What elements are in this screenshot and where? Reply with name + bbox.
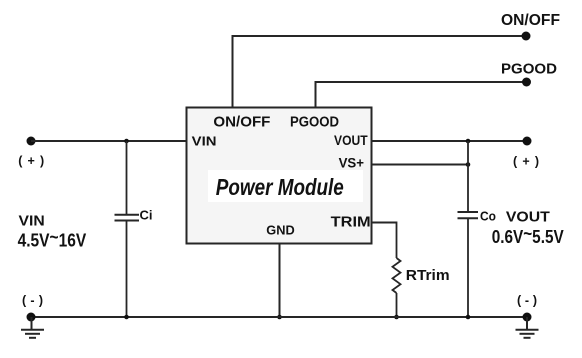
- wire PGOOD vertical from U1 top: [315, 82, 317, 108]
- svg-text:PGOOD: PGOOD: [501, 62, 557, 78]
- wire Co lower vertical: [467, 218, 469, 317]
- wire TRIM horizontal: [372, 222, 397, 224]
- svg-text:VOUT: VOUT: [334, 132, 368, 148]
- svg-text:(+): (+): [18, 154, 44, 168]
- svg-text:RTrim: RTrim: [406, 267, 450, 284]
- svg-text:(-): (-): [517, 294, 537, 308]
- wire Ci upper vertical: [126, 141, 128, 215]
- capacitor Ci: [115, 215, 140, 221]
- terminal node VIN (+): [27, 137, 36, 146]
- ground symbol right: [516, 317, 539, 338]
- svg-text:Co: Co: [480, 208, 496, 223]
- svg-text:0.6V~5.5V: 0.6V~5.5V: [492, 224, 564, 248]
- junction node Ci/rail: [124, 315, 129, 320]
- svg-text:VS+: VS+: [339, 155, 364, 171]
- wire PGOOD horizontal to terminal: [315, 81, 527, 83]
- wire RTrim lower vertical: [396, 293, 398, 317]
- svg-text:VIN: VIN: [19, 212, 45, 229]
- svg-text:Power Module: Power Module: [216, 174, 344, 200]
- wire ground rail: [31, 316, 527, 318]
- wire VOUT horizontal to terminal: [372, 140, 528, 142]
- highlight behind title: [208, 170, 363, 202]
- svg-text:Ci: Ci: [140, 208, 153, 222]
- wire ON/OFF horizontal to terminal: [232, 35, 527, 37]
- wire TRIM vertical down to RTrim: [396, 222, 398, 259]
- junction node RTrim/rail: [394, 315, 399, 320]
- svg-text:VIN: VIN: [192, 135, 217, 149]
- ground symbol left: [21, 317, 44, 338]
- svg-text:(-): (-): [22, 294, 43, 308]
- wire VS+ horizontal: [372, 164, 469, 166]
- junction node GND/rail: [277, 315, 282, 320]
- terminal node (-) left: [27, 313, 36, 322]
- wire ON/OFF vertical from U1 top: [232, 36, 234, 108]
- svg-text:ON/OFF: ON/OFF: [213, 114, 270, 131]
- svg-text:TRIM: TRIM: [331, 214, 371, 231]
- junction node VOUT/Co: [466, 139, 471, 144]
- terminal node VOUT (+): [523, 137, 532, 146]
- wire VIN input horizontal: [31, 140, 187, 142]
- terminal node (-) right: [523, 313, 532, 322]
- junction node Co/rail: [466, 315, 471, 320]
- svg-text:ON/OFF: ON/OFF: [501, 12, 560, 29]
- power module body U1: [187, 108, 372, 244]
- wire Ci lower vertical: [126, 221, 128, 318]
- terminal node ON/OFF: [522, 32, 531, 41]
- svg-text:(+): (+): [513, 155, 539, 169]
- svg-text:GND: GND: [266, 224, 294, 238]
- terminal node PGOOD: [522, 78, 531, 87]
- junction node VS+/Co: [466, 162, 471, 167]
- wire Co upper vertical: [467, 141, 469, 212]
- resistor RTrim: [393, 258, 401, 293]
- capacitor Co: [458, 212, 479, 218]
- svg-text:PGOOD: PGOOD: [290, 115, 339, 131]
- junction node Ci top on VIN wire: [124, 139, 129, 144]
- svg-text:4.5V~16V: 4.5V~16V: [18, 227, 87, 251]
- wire GND vertical from U1 bottom: [279, 244, 281, 318]
